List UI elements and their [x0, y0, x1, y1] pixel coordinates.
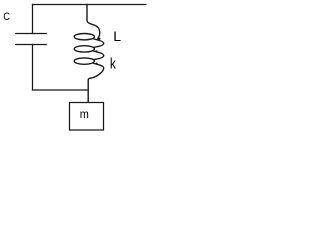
capacitor C top plate — [16, 33, 46, 35]
wire top rail — [33, 4, 146, 6]
wire inductor top lead — [87, 5, 100, 40]
mass box m — [70, 103, 104, 131]
inductor coil connector 1 — [94, 39, 104, 47]
svg-text:m: m — [80, 109, 89, 121]
inductor L coil loop 2 — [74, 46, 94, 52]
capacitor C bottom plate — [16, 44, 46, 46]
wire inductor bottom lead — [88, 64, 104, 103]
coil crossover knot 3 — [96, 63, 98, 65]
coil crossover knot 1 — [98, 38, 100, 40]
wire left branch upper — [32, 5, 34, 34]
wire bottom rail — [33, 89, 89, 91]
svg-text:k: k — [110, 55, 116, 72]
svg-text:C: C — [3, 11, 10, 23]
coil crossover knot 2 — [95, 50, 97, 52]
svg-text:L: L — [113, 28, 121, 44]
wire left branch lower — [32, 45, 34, 91]
inductor coil connector 2 — [94, 51, 104, 59]
inductor L coil loop 3 — [74, 58, 94, 64]
inductor L coil loop 1 — [74, 34, 94, 40]
